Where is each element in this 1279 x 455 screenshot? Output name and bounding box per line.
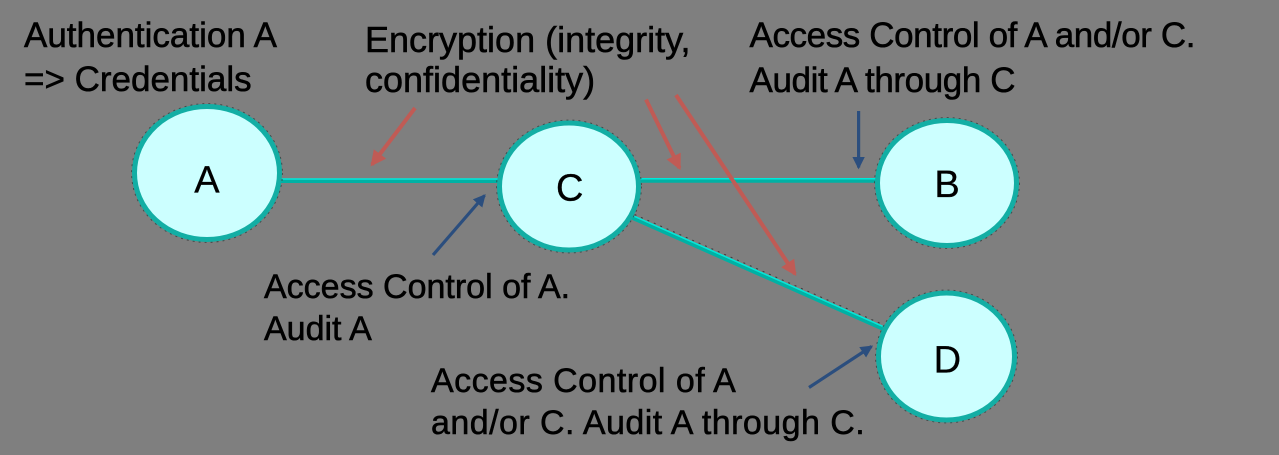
label: Encryption (integrity, confidentiality) bbox=[365, 20, 690, 100]
wire C-B (cyan highlight) bbox=[610, 178, 905, 180]
label: Access Control of A and/or C. Audit A through C bbox=[750, 13, 1196, 103]
node C bbox=[497, 120, 642, 253]
wire C-D (cyan highlight) bbox=[570, 188, 947, 355]
svg-text:C: C bbox=[556, 167, 583, 209]
blue arrow to wire C-B near B bbox=[857, 111, 860, 168]
node B bbox=[875, 118, 1020, 249]
label: Access Control of A and/or C. Audit A through C. bbox=[431, 360, 865, 444]
svg-text:B: B bbox=[934, 164, 959, 206]
node D bbox=[876, 290, 1018, 423]
red arrow to wire C-B bbox=[646, 100, 680, 169]
svg-text:D: D bbox=[934, 340, 961, 382]
red arrow to wire C-D bbox=[676, 95, 795, 274]
red arrow to wire A-C bbox=[372, 108, 415, 165]
blue arrow to node D bbox=[809, 347, 872, 388]
wire C-D dark fringe bbox=[571, 186, 948, 353]
wire C-D (teal body) bbox=[569, 190, 946, 357]
wire A-C (cyan highlight) bbox=[250, 178, 530, 180]
svg-text:A: A bbox=[194, 160, 220, 202]
node A bbox=[132, 104, 283, 243]
wire A-C (teal body) bbox=[250, 179, 530, 183]
label: Access Control of A. Audit A bbox=[264, 266, 570, 350]
wire C-B (teal body) bbox=[610, 179, 905, 183]
blue arrow to wire A-C near C bbox=[433, 196, 485, 256]
label: Authentication A => Credentials bbox=[24, 14, 277, 102]
